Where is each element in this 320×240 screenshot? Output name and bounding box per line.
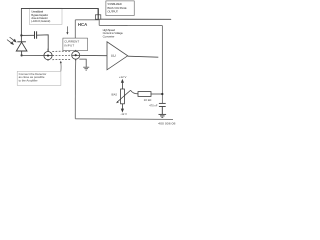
svg-text:to the Amplifier: to the Amplifier bbox=[19, 78, 38, 82]
svg-text:Converter: Converter bbox=[103, 35, 115, 39]
svg-text:-12 V: -12 V bbox=[121, 112, 128, 116]
svg-text:HCA: HCA bbox=[78, 22, 87, 27]
svg-text:+12 V: +12 V bbox=[119, 75, 127, 79]
svg-text:I/U: I/U bbox=[111, 54, 116, 58]
svg-text:470 nF: 470 nF bbox=[149, 104, 158, 108]
svg-text:(~100 nF, Ceramic): (~100 nF, Ceramic) bbox=[31, 19, 50, 23]
svg-text:OUTPUT: OUTPUT bbox=[107, 10, 118, 14]
svg-text:10 kΩ: 10 kΩ bbox=[144, 98, 152, 102]
svg-text:INPUT: INPUT bbox=[64, 44, 74, 48]
svg-text:400 006 08: 400 006 08 bbox=[158, 122, 176, 126]
svg-text:BIAS: BIAS bbox=[112, 92, 118, 96]
